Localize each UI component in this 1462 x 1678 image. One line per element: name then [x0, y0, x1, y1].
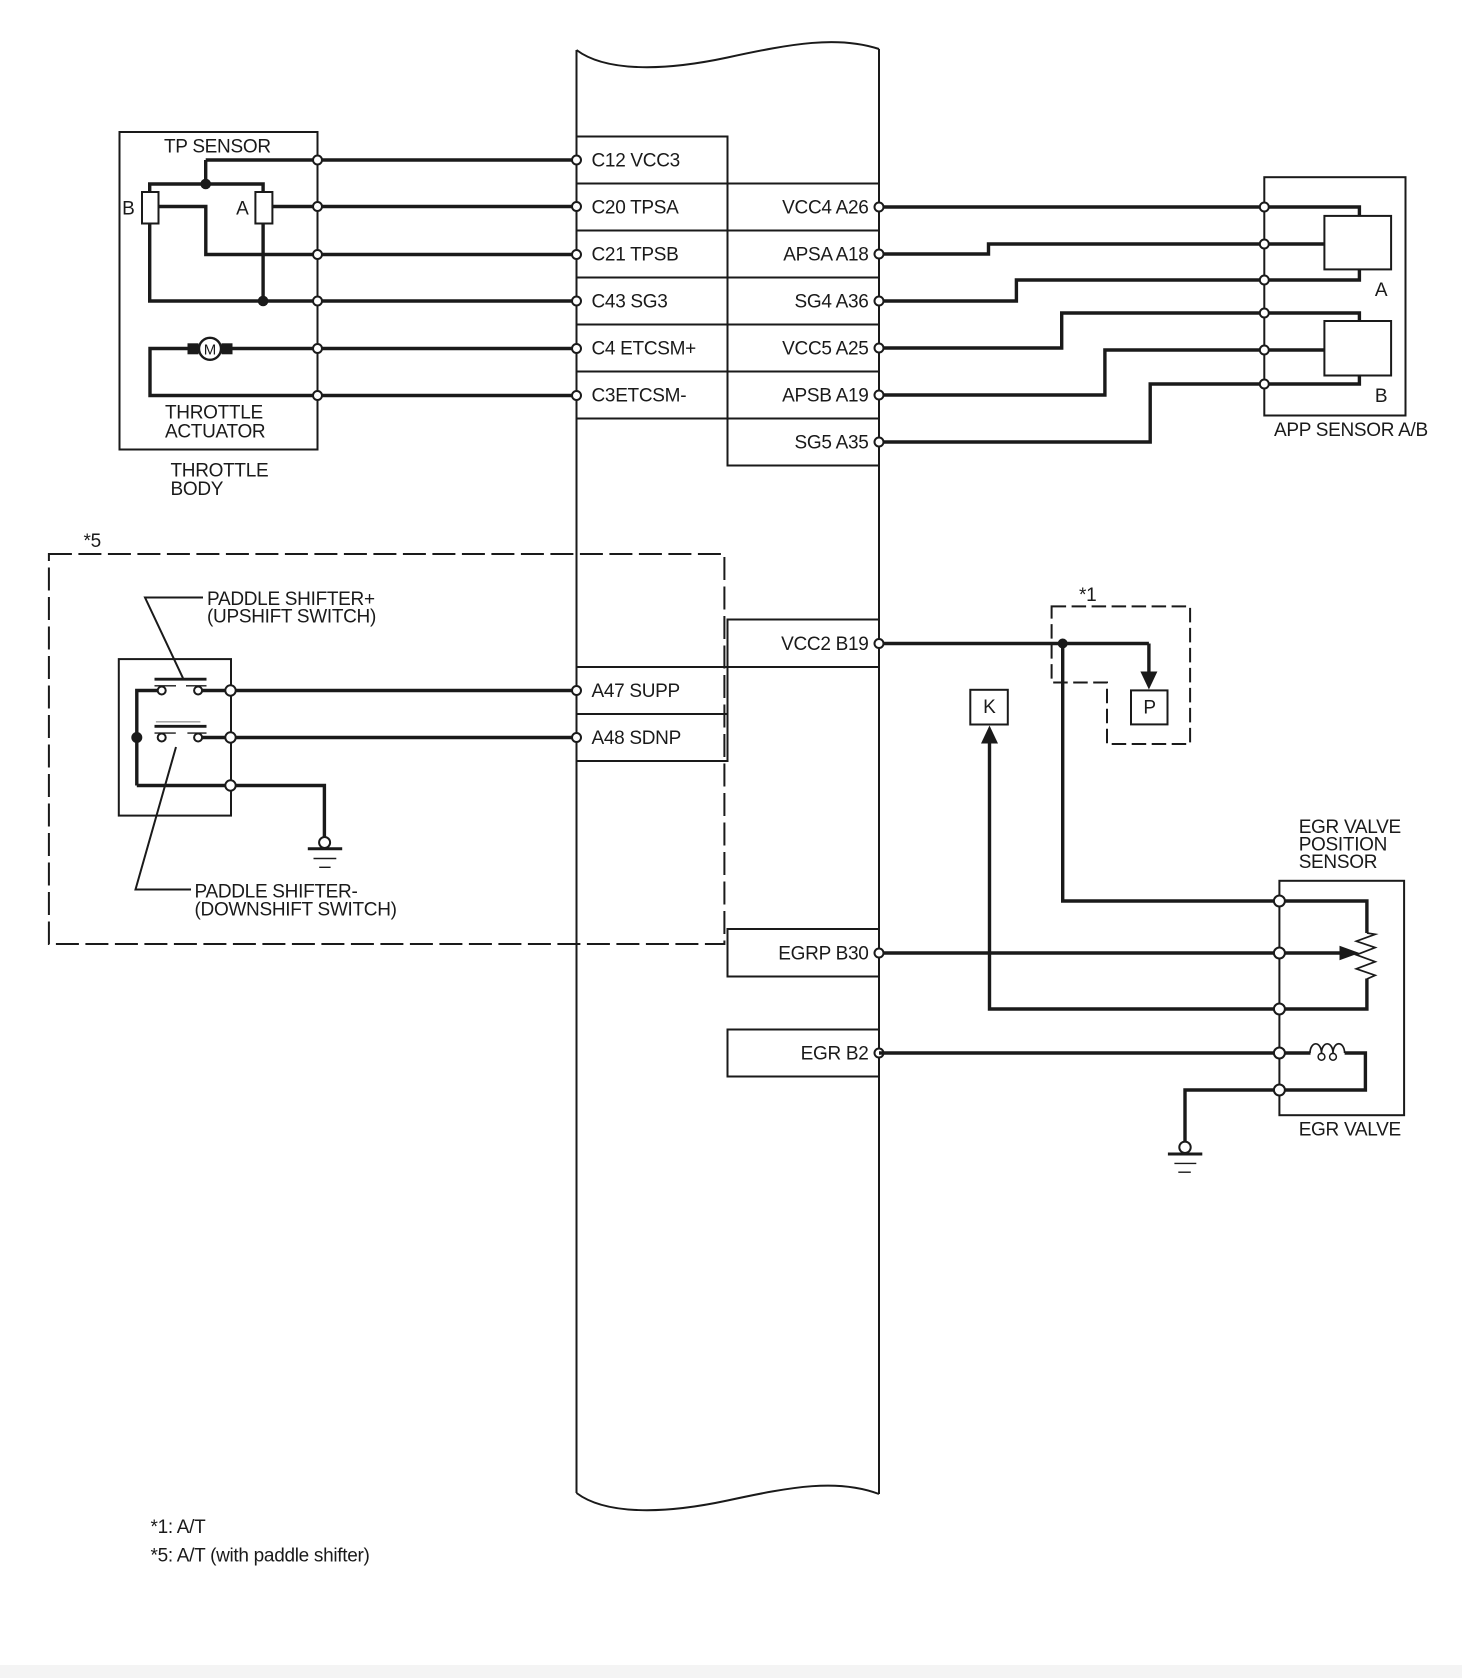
connector circle throttle body VCC3 [313, 156, 322, 165]
potentiometer B element [142, 192, 159, 224]
svg-text:C20 TPSA: C20 TPSA [592, 198, 680, 219]
callout leader PADDLE SHIFTER+ [145, 598, 203, 679]
pin C21 connector circle [572, 250, 581, 259]
junction dot switch common [131, 732, 142, 743]
svg-text:SG5 A35: SG5 A35 [795, 433, 869, 454]
THROTTLE BODY enclosure box [120, 132, 318, 450]
wire drop into P unit [1147, 644, 1150, 674]
svg-text:A: A [236, 199, 249, 220]
wire APP sensor B wiper [1264, 348, 1324, 351]
arrowhead wiper into resistor [1340, 946, 1360, 960]
connector circle APP sensor SG5 [1260, 380, 1269, 389]
APP sensor element A [1324, 216, 1391, 270]
pin B2 connector circle [875, 1049, 884, 1058]
ECM/PCM module right edge [878, 49, 880, 1494]
P unit box [1131, 690, 1168, 724]
connector circle APP sensor VCC4 [1260, 203, 1269, 212]
K unit box [970, 690, 1008, 725]
junction dot VCC2 node [1058, 639, 1068, 649]
downshift switch contact terminal left [158, 734, 166, 742]
wire switch common to ground [137, 786, 325, 838]
wire EGR valve ground run [1185, 1090, 1279, 1142]
wire from EGR position sense to K unit [990, 741, 1280, 1009]
pin box C12 VCC3 [577, 137, 728, 184]
svg-text:A: A [1375, 280, 1388, 301]
dashed option box *5 (A/T with paddle shifter) [49, 554, 725, 944]
connector circle APP sensor SG4 [1260, 276, 1269, 285]
pin A36 connector circle [875, 297, 884, 306]
pin A47 connector circle [572, 686, 581, 695]
svg-text:B: B [1375, 386, 1387, 407]
svg-text:APP SENSOR A/B: APP SENSOR A/B [1274, 420, 1428, 441]
junction dot on supply bar [200, 179, 211, 190]
svg-text:C3ETCSM-: C3ETCSM- [592, 386, 687, 407]
pin C4 connector circle [572, 344, 581, 353]
connector circle throttle body TPSA [313, 202, 322, 211]
wire APP sensor B low end [1264, 376, 1359, 385]
svg-text:BODY: BODY [171, 479, 224, 500]
upshift switch blade lines [155, 678, 207, 681]
svg-text:*1: *1 [1079, 585, 1096, 606]
ECM torn-paper bottom edge [577, 1486, 880, 1511]
arrowhead into K [981, 726, 998, 744]
svg-text:VCC2 B19: VCC2 B19 [781, 634, 868, 655]
svg-text:(UPSHIFT SWITCH): (UPSHIFT SWITCH) [207, 607, 376, 628]
pin A18 connector circle [875, 250, 884, 259]
svg-text:B: B [122, 199, 134, 220]
wire throttle actuator motor right to C4 ETCSM+ [233, 347, 577, 350]
wire coil return to sensor edge [1279, 1053, 1365, 1090]
connector circle throttle body TPSB [313, 250, 322, 259]
connector circle paddle box SUPP [225, 685, 235, 695]
pin box VCC5 A25 [728, 325, 880, 372]
wire APSA A18 to APP sensor [879, 244, 1264, 254]
svg-text:SENSOR: SENSOR [1299, 852, 1377, 873]
arrowhead into P [1140, 672, 1157, 690]
pin A48 connector circle [572, 733, 581, 742]
wire VCC2 B19 supply [879, 642, 1149, 645]
connector circle throttle body SG3 [313, 297, 322, 306]
wire upshift switch to A47 SUPP [202, 689, 576, 692]
wire supply drop to pot top bar [204, 160, 207, 184]
svg-text:P: P [1143, 698, 1155, 719]
svg-text:K: K [983, 697, 996, 718]
pin A19 connector circle [875, 391, 884, 400]
connector circle throttle body ETCSM+ [313, 344, 322, 353]
wire APP sensor A wiper [1264, 242, 1324, 245]
wire pot A low end down to SG3 node [261, 224, 264, 302]
wire VCC2 node down to EGR valve position sensor [1063, 644, 1280, 902]
EGR VALVE POSITION SENSOR enclosure box [1279, 881, 1404, 1115]
svg-text:APSB A19: APSB A19 [782, 386, 868, 407]
pin A25 connector circle [875, 344, 884, 353]
connector circle APP sensor APSA [1260, 240, 1269, 249]
pin box A48 SDNP [577, 714, 728, 761]
connector circle EGR valve EGR B2 [1274, 1048, 1285, 1059]
pin C12 connector circle [572, 156, 581, 165]
connector circle APP sensor APSB [1260, 346, 1269, 355]
wire pot top bar joining sensors B and A [150, 184, 263, 192]
pin box SG5 A35 [728, 419, 880, 466]
downshift switch contact terminal right [194, 734, 202, 742]
connector circle EGR sensor EGRP wiper [1274, 948, 1285, 959]
paddle shifter switch enclosure box [119, 659, 231, 816]
pin A26 connector circle [875, 203, 884, 212]
wire EGRP B30 to sensor wiper [879, 951, 1341, 954]
svg-text:SG4 A36: SG4 A36 [795, 292, 869, 313]
callout leader PADDLE SHIFTER- [136, 747, 192, 890]
connector circle APP sensor VCC5 [1260, 309, 1269, 318]
svg-text:A48 SDNP: A48 SDNP [592, 728, 681, 749]
pin B19 connector circle [875, 639, 884, 648]
pin box C4 ETCSM+ [577, 325, 728, 372]
connector circle throttle body ETCSM- [313, 391, 322, 400]
wire APSB A19 to APP sensor [879, 350, 1264, 395]
ground symbol (EGR valve) [1168, 1142, 1202, 1173]
pin box C43 SG3 [577, 278, 728, 325]
upshift switch contact terminal right [194, 687, 202, 695]
wire APP sensor B top feed [1264, 313, 1359, 321]
pin box C3 ETCSM- [577, 372, 728, 419]
wire SG5 A35 to APP sensor [879, 384, 1264, 442]
wire TP sensor A wiper to C20 TPSA [272, 205, 576, 208]
pin C43 connector circle [572, 297, 581, 306]
pin box VCC2 B19 [728, 620, 880, 668]
wire SG4 A36 to APP sensor [879, 280, 1264, 301]
svg-text:EGR B2: EGR B2 [801, 1044, 869, 1065]
solenoid coil L (EGR valve winding) [1310, 1044, 1345, 1060]
pin box C21 TPSB [577, 231, 728, 278]
wire sensor supply to resistor top [1279, 901, 1367, 933]
upshift switch contact terminal left [158, 687, 166, 695]
pin box A47 SUPP [577, 667, 728, 714]
pin box VCC4 A26 [728, 184, 880, 231]
junction dot SG3 node [258, 296, 269, 307]
wire APP sensor A top feed [1264, 207, 1359, 216]
svg-text:TP SENSOR: TP SENSOR [164, 137, 271, 158]
svg-text:C43 SG3: C43 SG3 [592, 292, 668, 313]
ground symbol (paddle shifter) [308, 837, 342, 867]
connector circle EGR sensor VCC2 [1274, 896, 1285, 907]
svg-text:EGR VALVE: EGR VALVE [1299, 1120, 1401, 1141]
ECM/PCM module left edge [576, 50, 578, 1493]
wire C12 VCC3 to TP sensor supply [206, 158, 577, 161]
svg-text:ACTUATOR: ACTUATOR [165, 421, 265, 442]
svg-text:C12 VCC3: C12 VCC3 [592, 151, 680, 172]
pin box C20 TPSA [577, 184, 728, 231]
pin box APSA A18 [728, 231, 880, 278]
pin box APSB A19 [728, 372, 880, 419]
APP SENSOR A/B enclosure box [1264, 177, 1405, 415]
connector circle paddle box ground lead [225, 780, 235, 790]
svg-text:A47 SUPP: A47 SUPP [592, 681, 680, 702]
wire throttle actuator motor left to loop [150, 349, 577, 396]
wire EGR B2 to solenoid coil [879, 1051, 1311, 1054]
wire downshift switch to A48 SDNP [202, 736, 576, 739]
connector circle paddle box SDNP [225, 732, 235, 742]
svg-text:C4 ETCSM+: C4 ETCSM+ [592, 339, 697, 360]
pin C20 connector circle [572, 202, 581, 211]
potentiometer A element [255, 192, 272, 224]
APP sensor element B [1324, 321, 1391, 376]
throttle actuator motor M [199, 338, 221, 360]
pin C3 connector circle [572, 391, 581, 400]
svg-text:VCC5 A25: VCC5 A25 [782, 339, 868, 360]
pin box EGR B2 [728, 1030, 880, 1077]
dashed option box *1 (A/T) [1052, 606, 1191, 744]
svg-text:VCC4 A26: VCC4 A26 [782, 198, 868, 219]
svg-text:(DOWNSHIFT SWITCH): (DOWNSHIFT SWITCH) [195, 900, 397, 921]
svg-text:*5: *5 [84, 531, 101, 552]
svg-text:*5: A/T (with paddle shifter): *5: A/T (with paddle shifter) [151, 1546, 370, 1567]
connector circle EGR sensor return [1274, 1004, 1285, 1015]
pin B30 connector circle [875, 949, 884, 958]
pin box SG4 A36 [728, 278, 880, 325]
wire switch common left link [137, 691, 158, 786]
ECM torn-paper top edge [577, 42, 880, 67]
wire pot B low end to SG3 [150, 224, 577, 302]
svg-text:M: M [204, 341, 217, 358]
svg-text:*1: A/T: *1: A/T [151, 1517, 207, 1538]
motor terminal block right [222, 343, 233, 354]
svg-text:EGRP B30: EGRP B30 [778, 944, 868, 965]
svg-text:APSA A18: APSA A18 [783, 245, 868, 266]
motor terminal block left [188, 343, 199, 354]
wire resistor bottom to sensor ground pin [1279, 979, 1367, 1010]
pin box EGRP B30 [728, 929, 880, 977]
pin A35 connector circle [875, 438, 884, 447]
wire TP sensor B wiper to C21 TPSB [159, 207, 577, 255]
resistor element (position sensor) [1356, 933, 1375, 979]
wire VCC4 A26 to APP sensor [879, 205, 1264, 208]
svg-text:C21 TPSB: C21 TPSB [592, 245, 679, 266]
downshift switch blade lines [156, 721, 201, 723]
wire VCC5 A25 to APP sensor [879, 313, 1264, 348]
wire APP sensor A low end [1264, 269, 1359, 280]
connector circle EGR valve ground [1274, 1085, 1285, 1096]
